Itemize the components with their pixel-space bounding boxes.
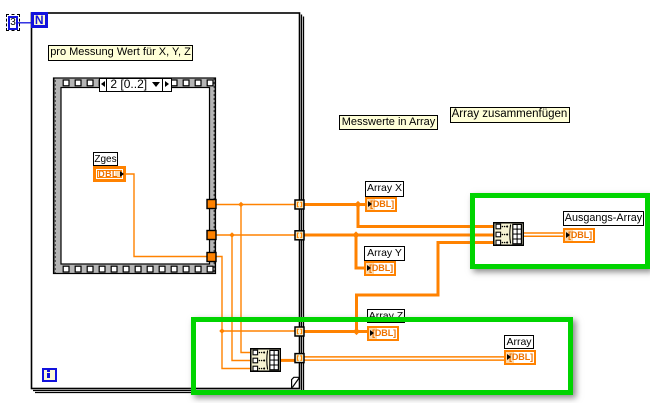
Zges DBL control: [93, 166, 126, 182]
Array Y label: [364, 246, 405, 261]
Array Z DBL indicator: [367, 326, 399, 341]
Zges label: [93, 152, 118, 167]
wire seq tunnel1 (X) to loop tunnel: [216, 204, 295, 206]
Array Y DBL indicator: [364, 261, 396, 276]
junction dots inside loop: [219, 202, 244, 334]
loop auto-index tunnels: [295, 200, 304, 363]
build array node U2 (lower, inside loop): [251, 349, 281, 372]
frame selector of sequence: [99, 78, 172, 93]
2D wire: loop tunnel to Array indicator: [304, 356, 504, 358]
i terminal: [42, 368, 57, 383]
label: pro Messung Wert für X, Y, Z: [48, 45, 193, 61]
array wire Y: loop tunnel to upper build array in2, branch to Array Y: [304, 234, 493, 237]
sequence tunnels (orange squares): [207, 200, 216, 262]
wire from 3 to N: [18, 22, 31, 24]
green highlight box upper: [470, 193, 650, 270]
array wire X: loop tunnel to Array X and down to upper build array in1: [304, 203, 365, 206]
Ausgangs-Array label: [563, 211, 644, 226]
wire X branch down to lower build array in1: [241, 205, 250, 353]
Array label: [504, 335, 534, 349]
wire seq tunnel2 (Y) to loop tunnel: [216, 234, 295, 236]
for-loop N border: [32, 13, 304, 393]
label: Array zusammenfügen: [450, 107, 570, 123]
page fold bottom-right of loop: [292, 377, 300, 388]
green highlight box lower: [191, 317, 573, 395]
build array node U1 (upper, concatenating to 2D): [494, 223, 524, 246]
wire Y branch down to lower build array in2: [232, 235, 250, 361]
Array X DBL indicator: [365, 197, 397, 212]
Ausgangs-Array DBL indicator: [563, 228, 595, 243]
N terminal: [31, 12, 48, 28]
film strip squares bottom band: [63, 266, 213, 272]
Array X label: [365, 181, 404, 197]
wire seq tunnel3 (Z) down and to loop tunnel: [216, 257, 295, 332]
lower build array output wire: [281, 359, 296, 362]
2D wire: upper build array out to Ausgangs-Array: [524, 232, 563, 234]
zigzag outer edges: [54, 78, 215, 274]
Array Z label: [367, 309, 405, 323]
Array DBL indicator: [504, 350, 536, 365]
array wire Z: loop tunnel to Array Z, branch up to upper build array in3: [304, 330, 367, 333]
junction dots outside loop: [352, 201, 361, 335]
film strip squares top band: [63, 80, 213, 86]
label: Messwerte in Array: [339, 115, 438, 130]
constant 3 with selection marquee: [6, 14, 20, 32]
wire Zges to sequence tunnel 3: [126, 174, 208, 257]
stacked sequence structure: [54, 78, 216, 274]
